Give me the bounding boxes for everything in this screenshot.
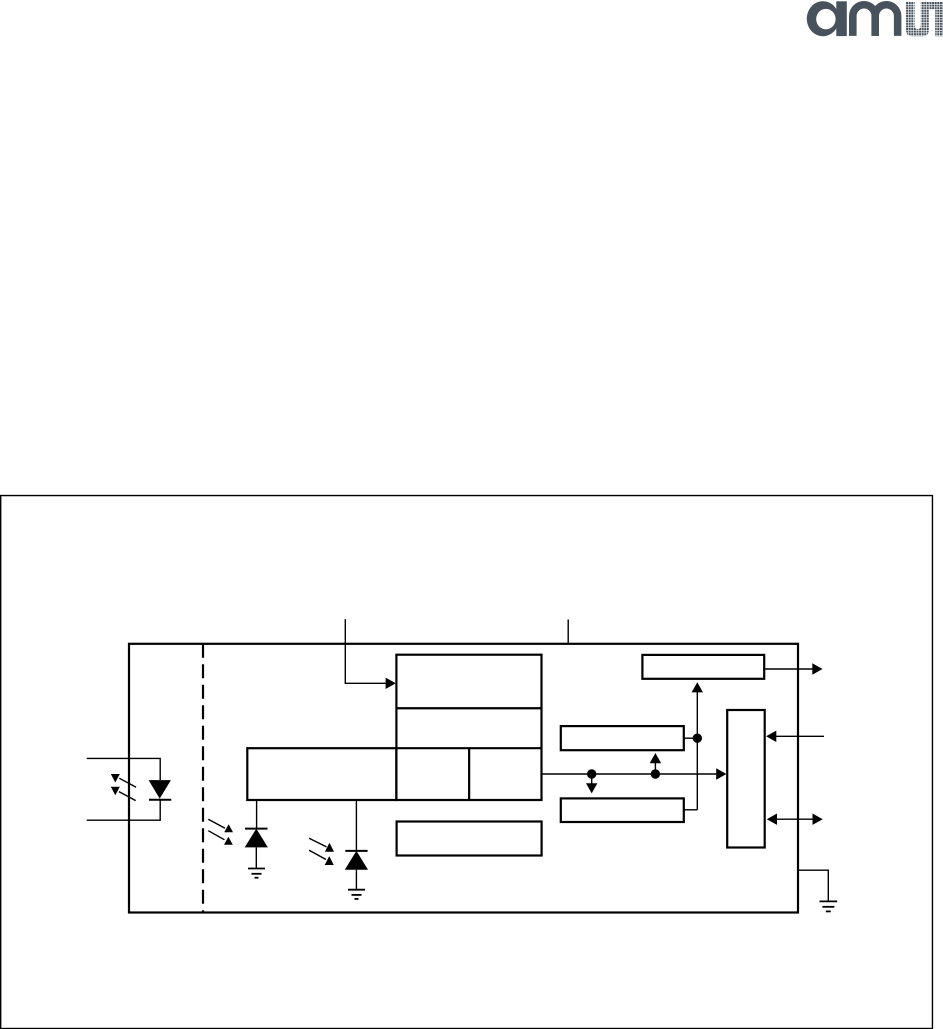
arrowhead into interface xyxy=(716,768,726,779)
junction dot A xyxy=(587,769,596,778)
IR LED loop wires xyxy=(87,758,161,820)
branch down to registers xyxy=(591,774,593,784)
central block box xyxy=(396,655,541,800)
upper middle box xyxy=(561,726,684,750)
interface box xyxy=(727,710,765,848)
ground photodiode 2 xyxy=(348,890,365,899)
junction dot C xyxy=(693,734,702,743)
INT output wire xyxy=(764,668,812,670)
IR LED diode xyxy=(149,780,172,800)
photodiode 1 xyxy=(245,829,268,869)
light arrows into photodiode 1 xyxy=(208,819,233,845)
arrowhead into state machine xyxy=(386,678,396,689)
device inner box xyxy=(129,644,798,913)
ams logo letter a xyxy=(807,1,847,36)
interrupt box xyxy=(642,655,764,679)
junction dot B xyxy=(651,769,660,778)
ams logo letter m xyxy=(849,1,901,36)
lower middle box xyxy=(561,798,684,822)
ams logo dotted s xyxy=(906,2,943,40)
data bus wire xyxy=(542,773,717,775)
light arrows from IR LED xyxy=(111,774,136,801)
wire to photodiode 2 xyxy=(355,800,357,851)
wire lower box to vertical xyxy=(684,809,698,811)
ground symbol right xyxy=(820,901,838,911)
dashed optical barrier line xyxy=(202,644,204,913)
SDA bidirectional wire xyxy=(777,818,813,820)
central block divider 2 xyxy=(396,747,541,749)
pin stub VDD (left) with wire into block xyxy=(345,619,387,683)
SCL input wire xyxy=(776,735,824,737)
wire to photodiode 1 xyxy=(256,800,258,829)
photodiode 2 xyxy=(345,851,368,890)
central block divider 1 xyxy=(396,707,541,709)
light arrows into photodiode 2 xyxy=(309,838,334,865)
branch up to upper box xyxy=(654,763,656,774)
oscillator box xyxy=(397,822,542,856)
ground wire right xyxy=(798,870,828,901)
analog front end box xyxy=(247,748,396,800)
pin stub (second) xyxy=(567,620,569,645)
central block vertical divider xyxy=(468,748,470,800)
ground photodiode 1 xyxy=(248,869,265,878)
wire upper box to vertical xyxy=(684,737,698,739)
vertical wire to interrupt xyxy=(696,692,698,810)
figure frame xyxy=(1,496,933,1029)
